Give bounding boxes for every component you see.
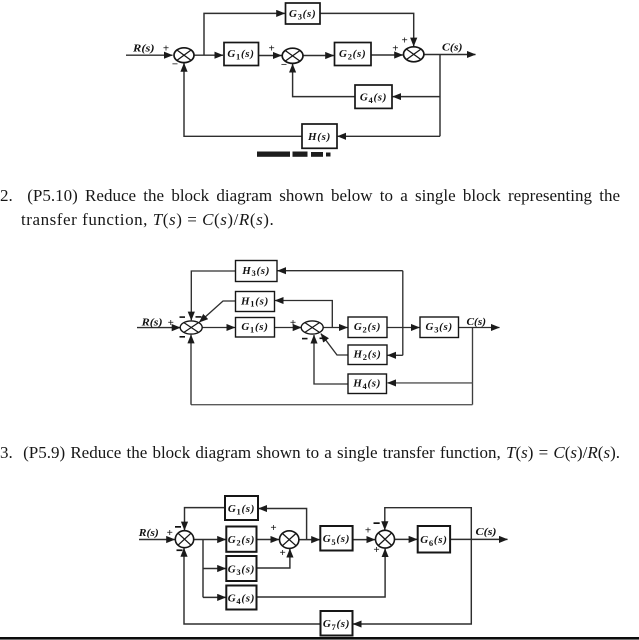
wire outer feedback vertical from output <box>472 328 474 405</box>
block G5 <box>320 526 352 551</box>
svg-text:H2(s): H2(s) <box>353 349 382 362</box>
wire junction A to G1 <box>194 54 223 56</box>
figure caption remnant <box>257 152 331 157</box>
wire G1 to junction B <box>259 55 282 57</box>
wire branch down to G3 G4 <box>202 540 204 598</box>
sign - dashes at junction 1 top <box>180 316 186 318</box>
wire G2 to G3 <box>387 327 420 329</box>
sign - at junction 1 bottom <box>180 336 186 338</box>
sign - above junction 1 <box>175 526 181 528</box>
wire G4 output into junction 3 bottom <box>257 549 386 597</box>
block H1 <box>236 292 275 312</box>
wire H3 output down into junction 1 top <box>191 271 235 320</box>
svg-text:+: + <box>373 544 379 556</box>
block G3 <box>420 317 459 338</box>
block G2 <box>335 43 372 66</box>
svg-text:G4(s): G4(s) <box>228 592 255 606</box>
block H2 <box>348 345 387 365</box>
wire H1 output diagonal into junction 1 <box>199 301 235 322</box>
block H <box>302 124 337 148</box>
svg-text:+: + <box>270 522 276 534</box>
wire arrow into H2 <box>388 354 403 356</box>
svg-text:G7(s): G7(s) <box>323 618 350 632</box>
svg-text:R(s): R(s) <box>138 527 159 539</box>
svg-text:G1(s): G1(s) <box>228 503 255 517</box>
svg-text:+: + <box>168 317 174 329</box>
node R(s) input wire <box>126 54 173 56</box>
block G4 <box>355 85 392 108</box>
svg-text:+: + <box>365 525 371 537</box>
svg-text:+: + <box>167 527 173 539</box>
svg-text:R(s): R(s) <box>140 317 162 329</box>
svg-text:+: + <box>392 43 398 55</box>
wire arrow into H3 <box>278 270 403 272</box>
sign - above junction 3 <box>374 522 380 524</box>
svg-text:+: + <box>163 43 169 55</box>
wire G2 to junction 2 <box>257 539 280 541</box>
wire output C(s) <box>424 54 476 56</box>
wire tap vertical to H3 and H2 <box>402 271 404 356</box>
block G3 <box>226 556 256 581</box>
wire into G4 <box>203 596 226 598</box>
svg-text:G1(s): G1(s) <box>227 48 254 62</box>
svg-text:+: + <box>269 42 275 54</box>
wire G3 output into junction 2 bottom <box>257 549 290 568</box>
svg-text:+: + <box>280 547 286 559</box>
svg-text:H(s): H(s) <box>307 131 331 143</box>
svg-text:−: − <box>172 59 178 71</box>
svg-text:H3(s): H3(s) <box>241 265 270 278</box>
wire G1 to junction 2 <box>275 327 302 329</box>
wire into G3 <box>203 568 226 570</box>
svg-text:C(s): C(s) <box>476 526 497 538</box>
svg-text:G3(s): G3(s) <box>228 563 255 577</box>
svg-text:H4(s): H4(s) <box>352 378 381 391</box>
sign - dashes at junction 2 bottom <box>302 338 308 340</box>
wire G5 to junction 3 <box>353 539 375 541</box>
wire branch up to G3 <box>204 13 285 55</box>
block G1 <box>225 496 258 520</box>
svg-text:G3(s): G3(s) <box>426 321 453 334</box>
wire G1 output into junction 1 top <box>185 508 226 531</box>
svg-text:G2(s): G2(s) <box>354 321 381 334</box>
svg-text:+: + <box>290 317 296 329</box>
summing junction A <box>174 48 194 63</box>
wire output down to G7 <box>353 539 471 624</box>
wire junction 2 to G5 <box>299 539 320 541</box>
svg-text:G5(s): G5(s) <box>323 533 350 547</box>
wire H4 output into junction 2 bottom <box>314 335 348 384</box>
block H3 <box>236 261 278 282</box>
block G3 <box>286 3 321 24</box>
wire feedback vertical from output <box>439 55 441 137</box>
block G6 <box>418 526 450 553</box>
sign - below junction 1 <box>177 549 183 551</box>
block G2 <box>348 317 387 338</box>
svg-text:−: − <box>281 59 287 71</box>
svg-text:C(s): C(s) <box>467 316 487 328</box>
wire H2 output diagonal into junction 2 <box>321 334 348 355</box>
summing junction 1 <box>175 531 193 548</box>
wire junction B to G2 <box>303 55 334 57</box>
svg-text:H1(s): H1(s) <box>240 295 269 308</box>
summing junction 3 <box>376 530 395 548</box>
summing junction C <box>404 47 424 62</box>
wire G3 output down into junction C <box>320 13 414 46</box>
bottom page border <box>0 637 639 640</box>
wire R(s) input <box>137 327 180 329</box>
svg-text:+: + <box>401 35 407 47</box>
svg-text:G1(s): G1(s) <box>241 321 268 334</box>
wire junction 2 to G2 <box>323 327 348 329</box>
wire into H4 <box>388 382 473 384</box>
wire G4 to junction B bottom <box>293 64 355 97</box>
wire H1 tap from junction 2 output <box>275 301 332 328</box>
wire G3 to output C(s) <box>459 327 500 329</box>
wire H to junction A bottom <box>184 63 302 136</box>
block G1 <box>224 43 259 66</box>
wire junction 1 output <box>194 539 226 541</box>
svg-text:G4(s): G4(s) <box>360 91 387 105</box>
svg-text:G3(s): G3(s) <box>289 8 316 22</box>
svg-text:G2(s): G2(s) <box>339 48 366 62</box>
block H4 <box>348 374 387 394</box>
block G1 <box>236 318 275 338</box>
summing junction B <box>282 48 303 63</box>
wire G7 output into junction 1 bottom <box>184 548 321 624</box>
svg-text:R(s): R(s) <box>132 43 155 55</box>
svg-text:G2(s): G2(s) <box>228 534 255 548</box>
wire tap to G1 input <box>259 509 307 540</box>
wire G2 to junction C <box>371 54 403 56</box>
summing junction 2 <box>280 531 299 549</box>
wire top feedback into junction 3 <box>385 508 472 540</box>
wire into G4 <box>393 96 440 98</box>
wire junction 3 to G6 <box>395 538 418 540</box>
block G7 <box>321 611 353 636</box>
summing junction 2 <box>301 321 323 334</box>
wire into H <box>338 135 440 137</box>
svg-text:G6(s): G6(s) <box>420 534 447 548</box>
block G4 <box>226 586 256 610</box>
summing junction 1 <box>180 321 202 334</box>
wire outer feedback into junction 1 bottom <box>190 335 192 405</box>
svg-text:C(s): C(s) <box>442 42 463 54</box>
wire junction 1 to G1 <box>202 327 236 329</box>
wire outer feedback bottom <box>191 404 473 406</box>
block G2 <box>226 527 256 552</box>
wire G6 to output C(s) <box>450 538 507 540</box>
wire R(s) input <box>139 539 175 541</box>
